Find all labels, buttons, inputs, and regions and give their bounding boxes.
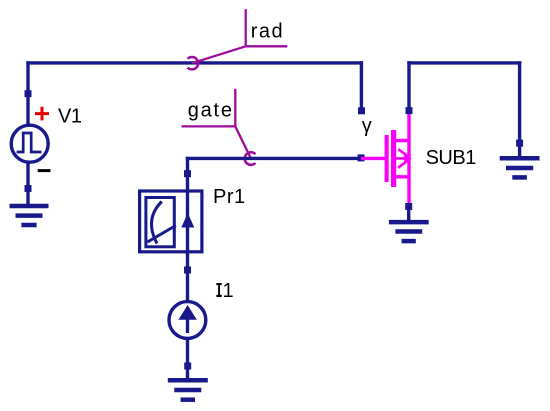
wire gate horizontal	[186, 157, 361, 160]
current source I1	[169, 302, 206, 339]
wire gate vertical down to probe and I1	[186, 157, 189, 302]
wire V1 bottom vertical	[26, 161, 29, 207]
node I1 bottom terminal	[184, 363, 191, 370]
node source terminal of SUB1	[405, 203, 412, 210]
svg-text:Pr1: Pr1	[213, 186, 246, 208]
svg-text:rad: rad	[251, 21, 284, 43]
svg-text:V1: V1	[58, 105, 82, 127]
voltage source V1	[11, 125, 48, 162]
node between probe and I1	[184, 267, 191, 274]
name label Pr1	[213, 186, 246, 208]
V1 plus polarity mark	[35, 107, 49, 121]
ground below V1	[10, 206, 49, 225]
wire top rail from V1 to node gamma corner	[26, 61, 363, 64]
svg-text:1: 1	[223, 280, 234, 302]
wire top right rail	[407, 61, 521, 64]
node gate terminal of SUB1	[358, 154, 365, 161]
MOSFET subcircuit SUB1	[361, 112, 412, 205]
net name gamma	[362, 115, 372, 137]
V1 minus polarity mark	[38, 169, 51, 172]
wire right ground stub	[518, 143, 521, 158]
wire node gamma vertical from top rail	[360, 61, 363, 110]
wire source to ground	[407, 207, 410, 223]
node gamma open end	[358, 107, 365, 114]
wire right vertical down	[518, 61, 521, 143]
node probe top junction	[184, 170, 191, 177]
wire I1 bottom vertical	[186, 337, 189, 380]
node right ground terminal	[516, 140, 523, 147]
node V1 plus terminal	[25, 90, 32, 97]
svg-text:SUB1: SUB1	[426, 147, 477, 169]
name label I1	[216, 280, 233, 302]
label gate	[182, 89, 256, 165]
probe Pr1	[140, 191, 202, 252]
ground right	[500, 158, 540, 177]
svg-text:γ: γ	[362, 115, 372, 137]
node V1 minus terminal	[25, 185, 32, 192]
ground below SUB1	[389, 222, 429, 241]
svg-text:gate: gate	[188, 100, 234, 122]
ground below I1	[168, 380, 208, 399]
name label SUB1	[426, 147, 477, 169]
wire V1 top vertical	[26, 61, 29, 127]
value label V1	[58, 105, 82, 127]
label rad	[188, 9, 288, 69]
wire drain vertical to top rail	[407, 61, 410, 108]
node drain terminal of SUB1	[406, 107, 413, 114]
